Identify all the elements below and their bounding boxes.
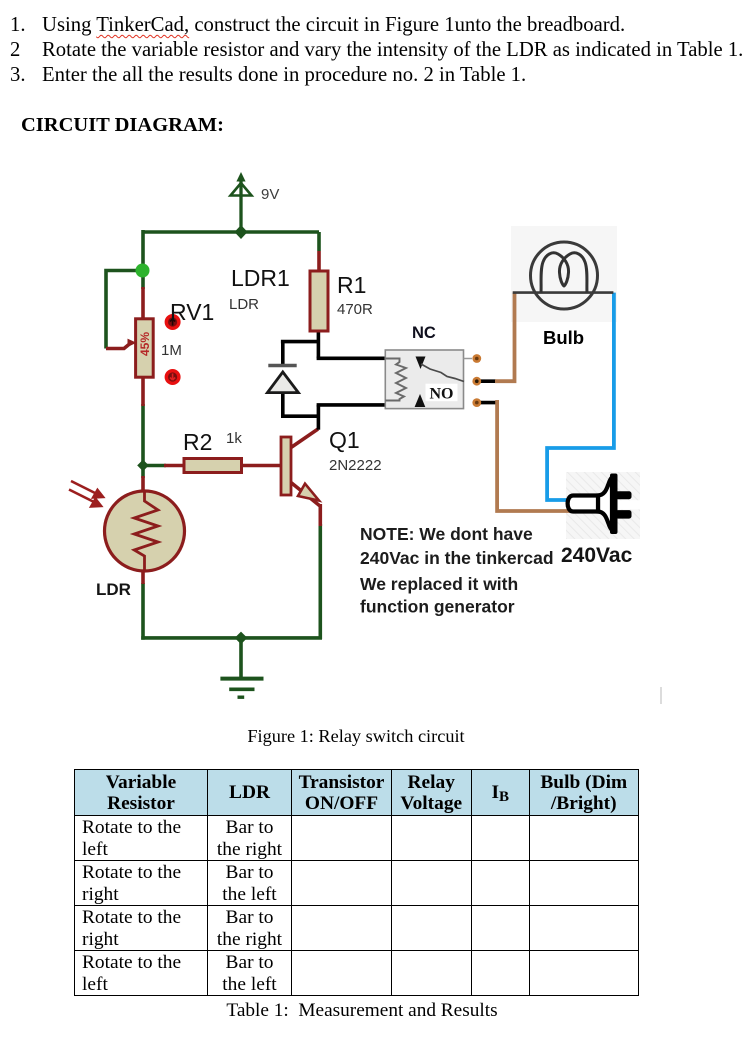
svg-text:LDR: LDR: [229, 296, 259, 313]
svg-text:NO: NO: [430, 386, 454, 403]
svg-text:LDR1: LDR1: [231, 265, 290, 291]
svg-text:NC: NC: [412, 324, 436, 342]
svg-text:function generator: function generator: [360, 597, 515, 617]
svg-text:We replaced it with: We replaced it with: [360, 574, 518, 594]
svg-text:Q1: Q1: [329, 427, 360, 453]
svg-text:Bulb: Bulb: [543, 327, 584, 348]
svg-text:1M: 1M: [161, 342, 182, 359]
svg-text:45%: 45%: [138, 332, 152, 356]
svg-text:2N2222: 2N2222: [329, 457, 382, 474]
svg-text:RV1: RV1: [170, 299, 214, 325]
svg-text:9V: 9V: [261, 186, 279, 203]
svg-text:240Vac: 240Vac: [561, 544, 633, 567]
svg-text:R2: R2: [183, 429, 212, 455]
svg-text:R1: R1: [337, 272, 366, 298]
svg-text:240Vac in the tinkercad: 240Vac in the tinkercad: [360, 548, 554, 568]
svg-text:470R: 470R: [337, 301, 373, 318]
svg-text:NOTE: We dont have: NOTE: We dont have: [360, 524, 533, 544]
svg-text:LDR: LDR: [96, 580, 131, 599]
svg-text:1k: 1k: [226, 430, 242, 447]
